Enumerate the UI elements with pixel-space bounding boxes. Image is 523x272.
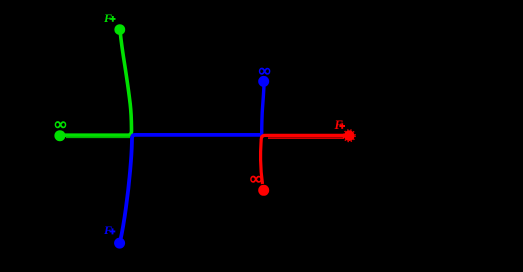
blue endpoint dot infinity (top) bbox=[258, 76, 269, 87]
svg-text:∞: ∞ bbox=[259, 61, 271, 80]
blue trajectory horizontal + lower curve to F- bbox=[120, 135, 261, 240]
blue endpoint dot F+ (bottom) bbox=[114, 238, 125, 249]
svg-text:F: F bbox=[103, 11, 112, 25]
svg-text:F: F bbox=[103, 223, 112, 237]
green horizontal lower strand bbox=[66, 136, 130, 138]
red endpoint dot F+ (right) bbox=[344, 130, 355, 141]
green trajectory curve (F+ to infinity) bbox=[61, 32, 132, 135]
red endpoint dot infinity (bottom) bbox=[258, 185, 269, 196]
red horizontal lower strand bbox=[268, 137, 344, 139]
svg-text:∞: ∞ bbox=[55, 115, 67, 134]
blue trajectory upper segment (from infinity down) bbox=[262, 85, 264, 135]
red trajectory (F+ right, horizontal, then down to infinity) bbox=[261, 135, 346, 184]
green endpoint dot infinity bbox=[54, 130, 65, 141]
green endpoint dot F+ bbox=[114, 24, 125, 35]
svg-text:∞: ∞ bbox=[250, 169, 262, 188]
